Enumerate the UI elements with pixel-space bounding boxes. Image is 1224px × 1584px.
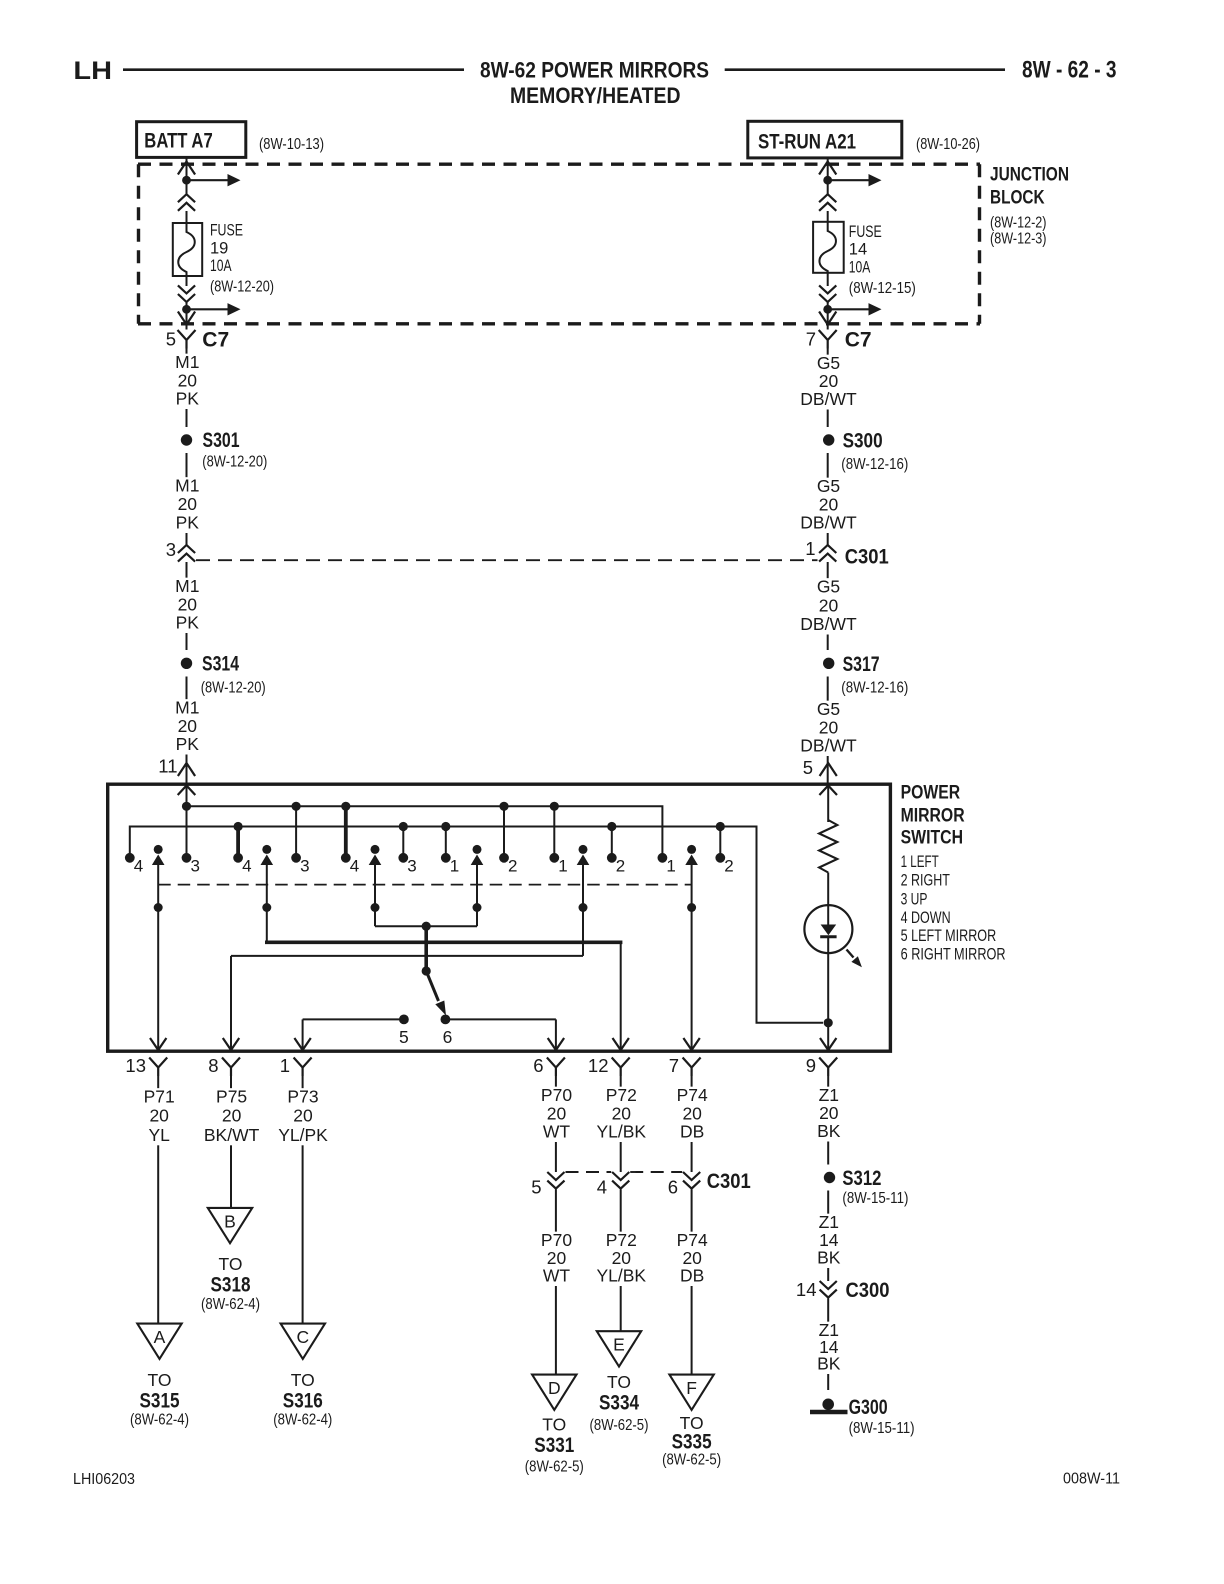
switch contact terminal 4 (column 1) (125, 853, 135, 863)
switch wiper 2 (262, 845, 271, 854)
svg-text:BK: BK (817, 1354, 841, 1374)
svg-text:(8W-62-5): (8W-62-5) (662, 1452, 721, 1469)
arrow out of junction block (down) (178, 312, 195, 325)
wiper 6 wire to pin 7 (691, 908, 693, 1051)
splice S314 (181, 658, 192, 669)
wire P75 20 BK/WT pin8 to B (230, 1076, 232, 1208)
arrow inside box pin 11 (178, 786, 196, 796)
svg-text:4 DOWN: 4 DOWN (901, 909, 951, 927)
svg-text:C: C (296, 1327, 309, 1347)
svg-text:P72: P72 (606, 1085, 637, 1105)
svg-text:WT: WT (543, 1122, 571, 1142)
junction dot pin 9 / illumination return (824, 1018, 833, 1027)
wire (827, 273, 829, 286)
switch contact terminal 1 (column 7) (441, 853, 451, 863)
ground G300 (822, 1399, 834, 1411)
svg-text:(8W-15-11): (8W-15-11) (849, 1420, 915, 1437)
mirror select contact 6 (441, 1015, 451, 1025)
in-line connector chevrons above fuse 19 (178, 194, 195, 211)
wire (186, 302, 188, 306)
svg-text:DB: DB (680, 1266, 704, 1286)
svg-text:C7: C7 (845, 329, 872, 352)
LED indicator (illumination lamp) (804, 905, 852, 953)
wire Z1 20 BK pin9 to S312 (827, 1076, 829, 1165)
switch contact terminal 4 (column 5) (341, 853, 351, 863)
in-line connector chevrons below fuse 14 (819, 285, 836, 302)
svg-text:S331: S331 (534, 1434, 574, 1457)
mirror select contact 5 (399, 1015, 409, 1025)
svg-text:(8W-12-2): (8W-12-2) (990, 215, 1047, 232)
svg-text:20: 20 (293, 1106, 313, 1126)
wire G5 20 DB/WT (S317 to switch pin 5) (827, 677, 829, 784)
switch contact terminal 2 (column 8) (499, 853, 509, 863)
svg-text:S317: S317 (843, 653, 880, 676)
arrow inside box at pin 7 (683, 1038, 699, 1050)
svg-text:M1: M1 (175, 698, 199, 718)
junction dot on bus 2 x=238.1 (234, 822, 243, 831)
svg-text:1: 1 (450, 857, 459, 876)
feed-through arrow right (top right) (832, 179, 870, 181)
svg-text:2: 2 (616, 857, 625, 876)
svg-text:(8W-12-15): (8W-12-15) (849, 280, 916, 297)
off-page triangle D (532, 1375, 576, 1410)
off-page triangle A (137, 1324, 181, 1359)
svg-text:8W-62 POWER MIRRORS: 8W-62 POWER MIRRORS (480, 57, 709, 82)
wire P70 20 WT pin6 (555, 1076, 557, 1172)
splice S301 (181, 434, 192, 445)
svg-text:3: 3 (166, 539, 176, 560)
wire P74 20 DB to F (691, 1190, 693, 1375)
svg-text:TO: TO (542, 1415, 566, 1435)
wire Z1 14 BK (S312 to C300) (827, 1191, 829, 1282)
switch contact terminal 1 (column 9) (549, 853, 559, 863)
switch wiper 6 (687, 845, 696, 854)
arrow inside box pin 5 (819, 786, 837, 796)
svg-text:008W-11: 008W-11 (1063, 1471, 1120, 1488)
wire pin 11 into box down to contact (186, 784, 188, 858)
svg-text:LH: LH (73, 57, 112, 85)
fuse 19 10A (173, 223, 202, 276)
node splice at fuse 19 input (182, 176, 191, 185)
svg-text:5: 5 (803, 757, 813, 778)
svg-text:5 LEFT MIRROR: 5 LEFT MIRROR (901, 927, 997, 945)
switch contact terminal 1 (column 11) (658, 853, 668, 863)
wire (827, 211, 829, 222)
in-line connector chevrons below fuse 19 (178, 285, 195, 302)
wire (827, 302, 829, 306)
arrow into junction block (up, right) (819, 162, 836, 175)
svg-text:(8W-15-11): (8W-15-11) (842, 1190, 908, 1207)
svg-text:TO: TO (219, 1254, 243, 1274)
arrow inside box at pin 1 (294, 1038, 310, 1050)
svg-text:ST-RUN A21: ST-RUN A21 (758, 130, 856, 153)
svg-text:2 RIGHT: 2 RIGHT (901, 871, 950, 889)
svg-text:20: 20 (819, 717, 839, 737)
feed box ST-RUN A21 (748, 121, 902, 158)
svg-text:20: 20 (547, 1103, 567, 1123)
svg-text:4: 4 (350, 857, 359, 876)
wire G5 20 DB/WT (S300 to C301) (827, 453, 829, 545)
svg-text:Z1: Z1 (819, 1085, 839, 1105)
svg-text:1: 1 (280, 1055, 290, 1076)
svg-text:19: 19 (210, 240, 228, 258)
svg-text:S314: S314 (202, 653, 239, 676)
junction dot on bus 1 x=186.5 (182, 802, 191, 811)
svg-text:C7: C7 (202, 329, 229, 352)
switch contact terminal 3 (column 4) (291, 853, 301, 863)
svg-text:C301: C301 (845, 546, 889, 569)
wire contact drop x=504 (503, 806, 505, 858)
svg-text:DB/WT: DB/WT (800, 736, 857, 756)
feed-through arrow right (bottom left) (191, 308, 229, 310)
svg-text:G5: G5 (817, 476, 840, 496)
svg-text:G300: G300 (849, 1396, 888, 1419)
svg-text:BK: BK (817, 1248, 841, 1268)
svg-text:S301: S301 (203, 429, 240, 452)
wire G5 20 DB/WT (C301 to S317) (827, 562, 829, 650)
off-page triangle B (208, 1208, 252, 1243)
svg-text:1 LEFT: 1 LEFT (901, 853, 939, 871)
wire contact drop x=345.8 (344, 806, 348, 858)
wire M1 20 PK (C7 to S301) (186, 349, 188, 428)
node splice at fuse 14 input (823, 176, 832, 185)
svg-text:4: 4 (597, 1177, 607, 1198)
bus line 2 (130, 827, 823, 1023)
svg-text:(8W-12-20): (8W-12-20) (210, 279, 274, 296)
junction block dashed border (138, 164, 980, 324)
svg-text:S312: S312 (842, 1167, 881, 1190)
svg-text:(8W-12-20): (8W-12-20) (201, 680, 266, 697)
svg-text:6: 6 (443, 1027, 453, 1047)
svg-text:20: 20 (178, 716, 198, 736)
wire BATT A7 to junction block (186, 157, 188, 176)
svg-text:11: 11 (158, 756, 177, 777)
svg-text:F: F (686, 1378, 697, 1398)
wire contact drop x=238.1 (236, 827, 240, 858)
svg-text:D: D (548, 1378, 561, 1398)
svg-text:(8W-12-16): (8W-12-16) (841, 680, 908, 697)
svg-text:5: 5 (166, 329, 176, 350)
wiper 5 wire to pin 8 (582, 908, 584, 956)
splice S312 (824, 1172, 835, 1183)
svg-text:10A: 10A (210, 257, 232, 275)
feed-through arrow right (top left) (191, 179, 229, 181)
svg-text:S318: S318 (211, 1273, 251, 1296)
svg-text:S316: S316 (283, 1390, 323, 1413)
svg-text:20: 20 (819, 494, 839, 514)
svg-text:P70: P70 (541, 1085, 572, 1105)
header rule right (725, 68, 1005, 71)
svg-text:DB/WT: DB/WT (800, 614, 857, 634)
svg-text:C300: C300 (846, 1279, 890, 1302)
svg-text:(8W-12-16): (8W-12-16) (841, 456, 908, 473)
svg-text:YL/PK: YL/PK (278, 1125, 328, 1145)
svg-text:SWITCH: SWITCH (901, 827, 963, 848)
svg-text:14: 14 (796, 1279, 817, 1300)
svg-text:DB/WT: DB/WT (800, 389, 857, 409)
svg-text:4: 4 (134, 857, 143, 876)
svg-text:S300: S300 (843, 430, 883, 453)
svg-text:(8W-10-13): (8W-10-13) (259, 136, 324, 153)
svg-text:PK: PK (176, 613, 200, 633)
node splice at fuse 14 output (823, 305, 832, 314)
svg-text:S334: S334 (599, 1392, 639, 1415)
junction dot on bus 2 x=445.8 (441, 822, 450, 831)
in-line connector chevrons above fuse 14 (819, 194, 836, 211)
svg-text:(8W-62-4): (8W-62-4) (130, 1412, 189, 1429)
svg-text:MEMORY/HEATED: MEMORY/HEATED (510, 83, 681, 108)
wire contact drop x=611.8 (611, 827, 613, 858)
svg-text:PK: PK (176, 389, 200, 409)
svg-text:6: 6 (668, 1177, 678, 1198)
svg-text:DB/WT: DB/WT (800, 513, 857, 533)
svg-text:LHI06203: LHI06203 (73, 1471, 135, 1488)
wire (827, 184, 829, 195)
svg-text:(8W-10-26): (8W-10-26) (916, 136, 980, 153)
svg-text:TO: TO (607, 1372, 631, 1392)
switch wiper 4 (473, 845, 482, 854)
svg-text:20: 20 (178, 370, 198, 390)
switch wiper 1 (154, 845, 163, 854)
junction dot on bus 2 x=403.3 (399, 822, 408, 831)
svg-text:TO: TO (148, 1370, 172, 1390)
svg-text:DB: DB (680, 1122, 704, 1142)
svg-text:3: 3 (407, 857, 416, 876)
svg-text:BK/WT: BK/WT (204, 1125, 260, 1145)
svg-text:20: 20 (222, 1106, 242, 1126)
switch contact terminal 3 (column 6) (398, 853, 408, 863)
arrow inside box at pin 9 (820, 1038, 836, 1050)
LED emission arrow (847, 950, 854, 958)
connector C301 dashed tie line (196, 559, 818, 561)
junction dot on bus 1 x=296.1 (292, 802, 301, 811)
wire (186, 276, 188, 286)
wire M1 20 PK (C301 to S314) (186, 562, 188, 650)
wire P71 20 YL pin13 to A (157, 1076, 159, 1324)
svg-text:PK: PK (176, 734, 200, 754)
svg-text:13: 13 (125, 1055, 146, 1076)
svg-text:YL/BK: YL/BK (596, 1122, 646, 1142)
bus line 1 (pin 11 feed) (187, 806, 663, 858)
wire (186, 211, 188, 223)
wiper 1 wire to pin 13 (157, 908, 159, 1051)
wire ST-RUN A21 to junction block (827, 158, 829, 176)
svg-text:2: 2 (724, 857, 733, 876)
svg-text:G5: G5 (817, 353, 840, 373)
feed box BATT A7 (137, 122, 246, 158)
wire leaving junction block (827, 313, 829, 330)
svg-text:20: 20 (682, 1103, 702, 1123)
svg-text:S315: S315 (140, 1390, 180, 1413)
svg-text:20: 20 (178, 494, 198, 514)
svg-text:P73: P73 (287, 1087, 318, 1107)
wire P72 20 YL/BK pin12 (620, 1076, 622, 1172)
svg-text:BATT A7: BATT A7 (144, 130, 212, 153)
feed-through arrow right (bottom right) (832, 308, 870, 310)
svg-text:1: 1 (558, 857, 567, 876)
node splice at fuse 19 output (182, 305, 191, 314)
svg-text:5: 5 (399, 1027, 409, 1047)
wire contact drop x=554.3 (553, 806, 555, 858)
junction dot on bus 1 x=554.3 (550, 802, 559, 811)
svg-text:G5: G5 (817, 577, 840, 597)
svg-text:YL: YL (148, 1125, 170, 1145)
svg-text:(8W-62-4): (8W-62-4) (201, 1296, 260, 1313)
svg-text:20: 20 (819, 595, 839, 615)
splice S317 (823, 658, 834, 669)
switch wiper 5 (579, 845, 588, 854)
svg-text:BLOCK: BLOCK (990, 187, 1045, 208)
wire (186, 184, 188, 195)
svg-text:M1: M1 (175, 352, 199, 372)
svg-text:14: 14 (849, 241, 867, 259)
wire M1 20 PK (S301 to C301) (186, 453, 188, 545)
svg-text:8W - 62 - 3: 8W - 62 - 3 (1022, 57, 1117, 84)
svg-text:(8W-12-3): (8W-12-3) (990, 231, 1047, 248)
mechanical coupling dashed line (158, 884, 691, 886)
wiper 3+4 tie (374, 908, 376, 927)
wire P70 20 WT to D (555, 1190, 557, 1375)
svg-text:M1: M1 (175, 576, 199, 596)
wire contact drop x=296.1 (295, 806, 297, 858)
svg-text:8: 8 (208, 1055, 218, 1076)
svg-text:WT: WT (543, 1266, 571, 1286)
svg-text:20: 20 (178, 594, 198, 614)
switch contact terminal 3 (column 2) (182, 853, 192, 863)
wire P73 20 YL/PK pin1 to C (302, 1076, 304, 1324)
arrow inside box at pin 6 (548, 1038, 564, 1050)
svg-text:(8W-62-4): (8W-62-4) (273, 1412, 332, 1429)
svg-text:3: 3 (300, 857, 309, 876)
svg-text:6: 6 (533, 1055, 543, 1076)
svg-text:7: 7 (669, 1055, 679, 1076)
svg-text:A: A (154, 1327, 166, 1347)
svg-text:P71: P71 (144, 1087, 175, 1107)
svg-text:4: 4 (242, 857, 251, 876)
wire P72 20 YL/BK to E (620, 1190, 622, 1332)
svg-text:20: 20 (819, 1103, 839, 1123)
wire resistor to LED (827, 873, 829, 906)
svg-text:3: 3 (191, 857, 200, 876)
wire P74 20 DB pin7 (691, 1076, 693, 1172)
svg-text:3 UP: 3 UP (901, 891, 928, 909)
svg-text:(8W-12-20): (8W-12-20) (202, 454, 267, 471)
svg-text:20: 20 (819, 371, 839, 391)
fuse 14 10A (813, 222, 844, 273)
svg-text:E: E (613, 1335, 625, 1355)
svg-text:20: 20 (149, 1106, 169, 1126)
wire contact drop x=720.3 (719, 827, 721, 858)
power mirror switch box (108, 784, 891, 1051)
svg-text:JUNCTION: JUNCTION (990, 165, 1069, 186)
switch contact terminal 4 (column 3) (233, 853, 243, 863)
switch contact terminal 2 (column 12) (715, 853, 725, 863)
off-page triangle F (669, 1375, 713, 1410)
svg-text:7: 7 (806, 329, 816, 350)
arrow inside box at pin 8 (223, 1038, 239, 1050)
svg-text:1: 1 (666, 857, 675, 876)
wire leaving junction block (186, 313, 188, 330)
arrow into junction block (up) (178, 162, 195, 175)
switch contact terminal 2 (column 10) (607, 853, 617, 863)
junction dot on bus 1 x=345.8 (341, 802, 350, 811)
junction dot on bus 2 x=720.3 (716, 822, 725, 831)
svg-text:6 RIGHT MIRROR: 6 RIGHT MIRROR (901, 946, 1006, 964)
wire contact drop x=403.3 (402, 827, 404, 858)
svg-text:P74: P74 (677, 1085, 708, 1105)
header rule left (123, 68, 464, 71)
svg-text:PK: PK (176, 513, 200, 533)
svg-text:FUSE: FUSE (210, 222, 243, 240)
svg-text:12: 12 (588, 1055, 609, 1076)
svg-text:G5: G5 (817, 699, 840, 719)
svg-text:9: 9 (806, 1055, 816, 1076)
arrow out of junction block (down, right) (819, 312, 836, 325)
svg-text:10A: 10A (849, 259, 871, 277)
svg-text:(8W-62-5): (8W-62-5) (590, 1417, 649, 1434)
svg-text:MIRROR: MIRROR (901, 805, 965, 826)
splice S300 (823, 434, 834, 445)
svg-text:(8W-62-5): (8W-62-5) (525, 1458, 584, 1475)
resistor (illumination) (827, 784, 829, 822)
svg-text:BK: BK (817, 1121, 841, 1141)
wire G5 20 DB/WT (C7 to S300) (827, 349, 829, 428)
arrow inside box at pin 12 (613, 1038, 629, 1050)
junction dot on bus 2 x=611.8 (607, 822, 616, 831)
wire M1 20 PK (S314 to switch pin 11) (186, 677, 188, 784)
connector C301 dashed tie (bottom) (566, 1171, 612, 1173)
svg-text:20: 20 (612, 1103, 632, 1123)
svg-text:1: 1 (805, 538, 815, 559)
svg-text:FUSE: FUSE (849, 223, 882, 241)
svg-text:P75: P75 (216, 1087, 247, 1107)
svg-text:2: 2 (508, 857, 517, 876)
svg-text:S335: S335 (672, 1431, 712, 1454)
wire contact drop x=445.8 (445, 827, 447, 858)
off-page triangle C (281, 1324, 325, 1359)
off-page triangle E (597, 1331, 641, 1366)
svg-text:5: 5 (531, 1177, 541, 1198)
switch wiper 3 (371, 845, 380, 854)
svg-text:POWER: POWER (901, 783, 961, 804)
svg-text:B: B (224, 1211, 236, 1231)
switch common arm (424, 926, 428, 971)
svg-text:TO: TO (291, 1370, 315, 1390)
svg-text:C301: C301 (707, 1170, 751, 1193)
svg-text:M1: M1 (175, 476, 199, 496)
junction dot on bus 1 x=504 (499, 802, 508, 811)
arrow inside box at pin 13 (150, 1038, 166, 1050)
wiper 2 wire to pin 12 (266, 908, 268, 943)
svg-text:YL/BK: YL/BK (596, 1266, 646, 1286)
wire Z1 14 BK (C300 to G300) (827, 1299, 829, 1391)
